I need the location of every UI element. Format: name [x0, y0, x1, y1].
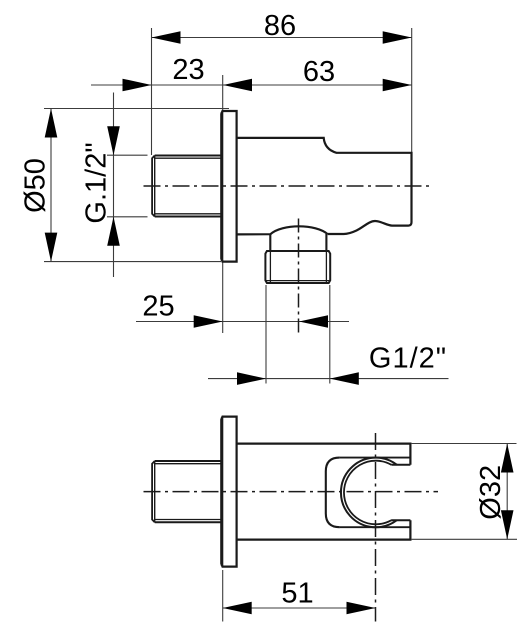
- wire: extension line x=411.7: [411, 28, 413, 153]
- svg-text:G1/2": G1/2": [369, 343, 447, 375]
- svg-text:86: 86: [264, 10, 296, 42]
- dimension G1/2 line: [208, 378, 449, 380]
- svg-text:63: 63: [303, 56, 335, 88]
- C-ring inner arc: [344, 461, 391, 525]
- body top view: [237, 138, 412, 234]
- outlet thread roots: [265, 251, 330, 283]
- svg-text:Ø32: Ø32: [475, 465, 507, 520]
- cup wall lines in notch: [340, 458, 411, 528]
- nipple bottom view: [155, 461, 222, 522]
- flange bottom view: [221, 417, 236, 567]
- wire: extension line x=222.7: [222, 75, 224, 111]
- dimension Ø50 line: [50, 109, 52, 262]
- holder centerline: [375, 433, 377, 622]
- wire: extension line flange face down: [222, 262, 224, 333]
- centerline bottom view: [144, 491, 439, 493]
- dimension G.1/2 line: [113, 93, 115, 278]
- centerline top view: [144, 185, 430, 187]
- dome over outlet: [237, 226, 328, 234]
- body bottom view: [237, 444, 411, 540]
- svg-text:Ø50: Ø50: [20, 158, 52, 213]
- flange (escutcheon) top view: [221, 111, 236, 262]
- outlet centerline: [298, 219, 300, 333]
- svg-text:G.1/2": G.1/2": [81, 142, 113, 223]
- outlet thread box: [265, 251, 330, 283]
- 51 extension + line: [222, 570, 224, 622]
- Ø32 ticks: [411, 443, 517, 445]
- 51 arrows: [223, 602, 252, 615]
- nipple (wall thread) top view: [155, 156, 222, 217]
- dimension G.1/2 ticks: [107, 154, 148, 156]
- Ø32 dim line: [506, 444, 508, 540]
- thread root lines: [155, 158, 222, 214]
- outlet neck: [270, 234, 326, 251]
- dimension 86 line: [152, 37, 412, 39]
- wire: extension line x=151.5: [151, 28, 153, 155]
- dimension Ø50 ticks: [44, 108, 229, 110]
- svg-text:25: 25: [142, 291, 174, 323]
- svg-text:23: 23: [172, 54, 204, 86]
- Ø50 arrows: [45, 109, 58, 138]
- 25 arrows: [194, 315, 223, 328]
- 86 arrows: [152, 31, 181, 44]
- 63 right arrow: [383, 79, 412, 92]
- notch lines: [391, 465, 410, 520]
- Ø32 arrows: [501, 444, 514, 473]
- dimension 23/63 line: [91, 84, 412, 86]
- G1/2 arrows: [237, 372, 266, 385]
- cup outline: [326, 458, 340, 528]
- G.1/2 arrows: [107, 126, 120, 155]
- 23 arrows: [123, 79, 152, 92]
- dimension 25 line: [136, 321, 349, 323]
- wire: extension lines of outlet thread: [265, 285, 267, 384]
- svg-text:51: 51: [281, 578, 313, 610]
- C-ring outer arc: [341, 458, 397, 528]
